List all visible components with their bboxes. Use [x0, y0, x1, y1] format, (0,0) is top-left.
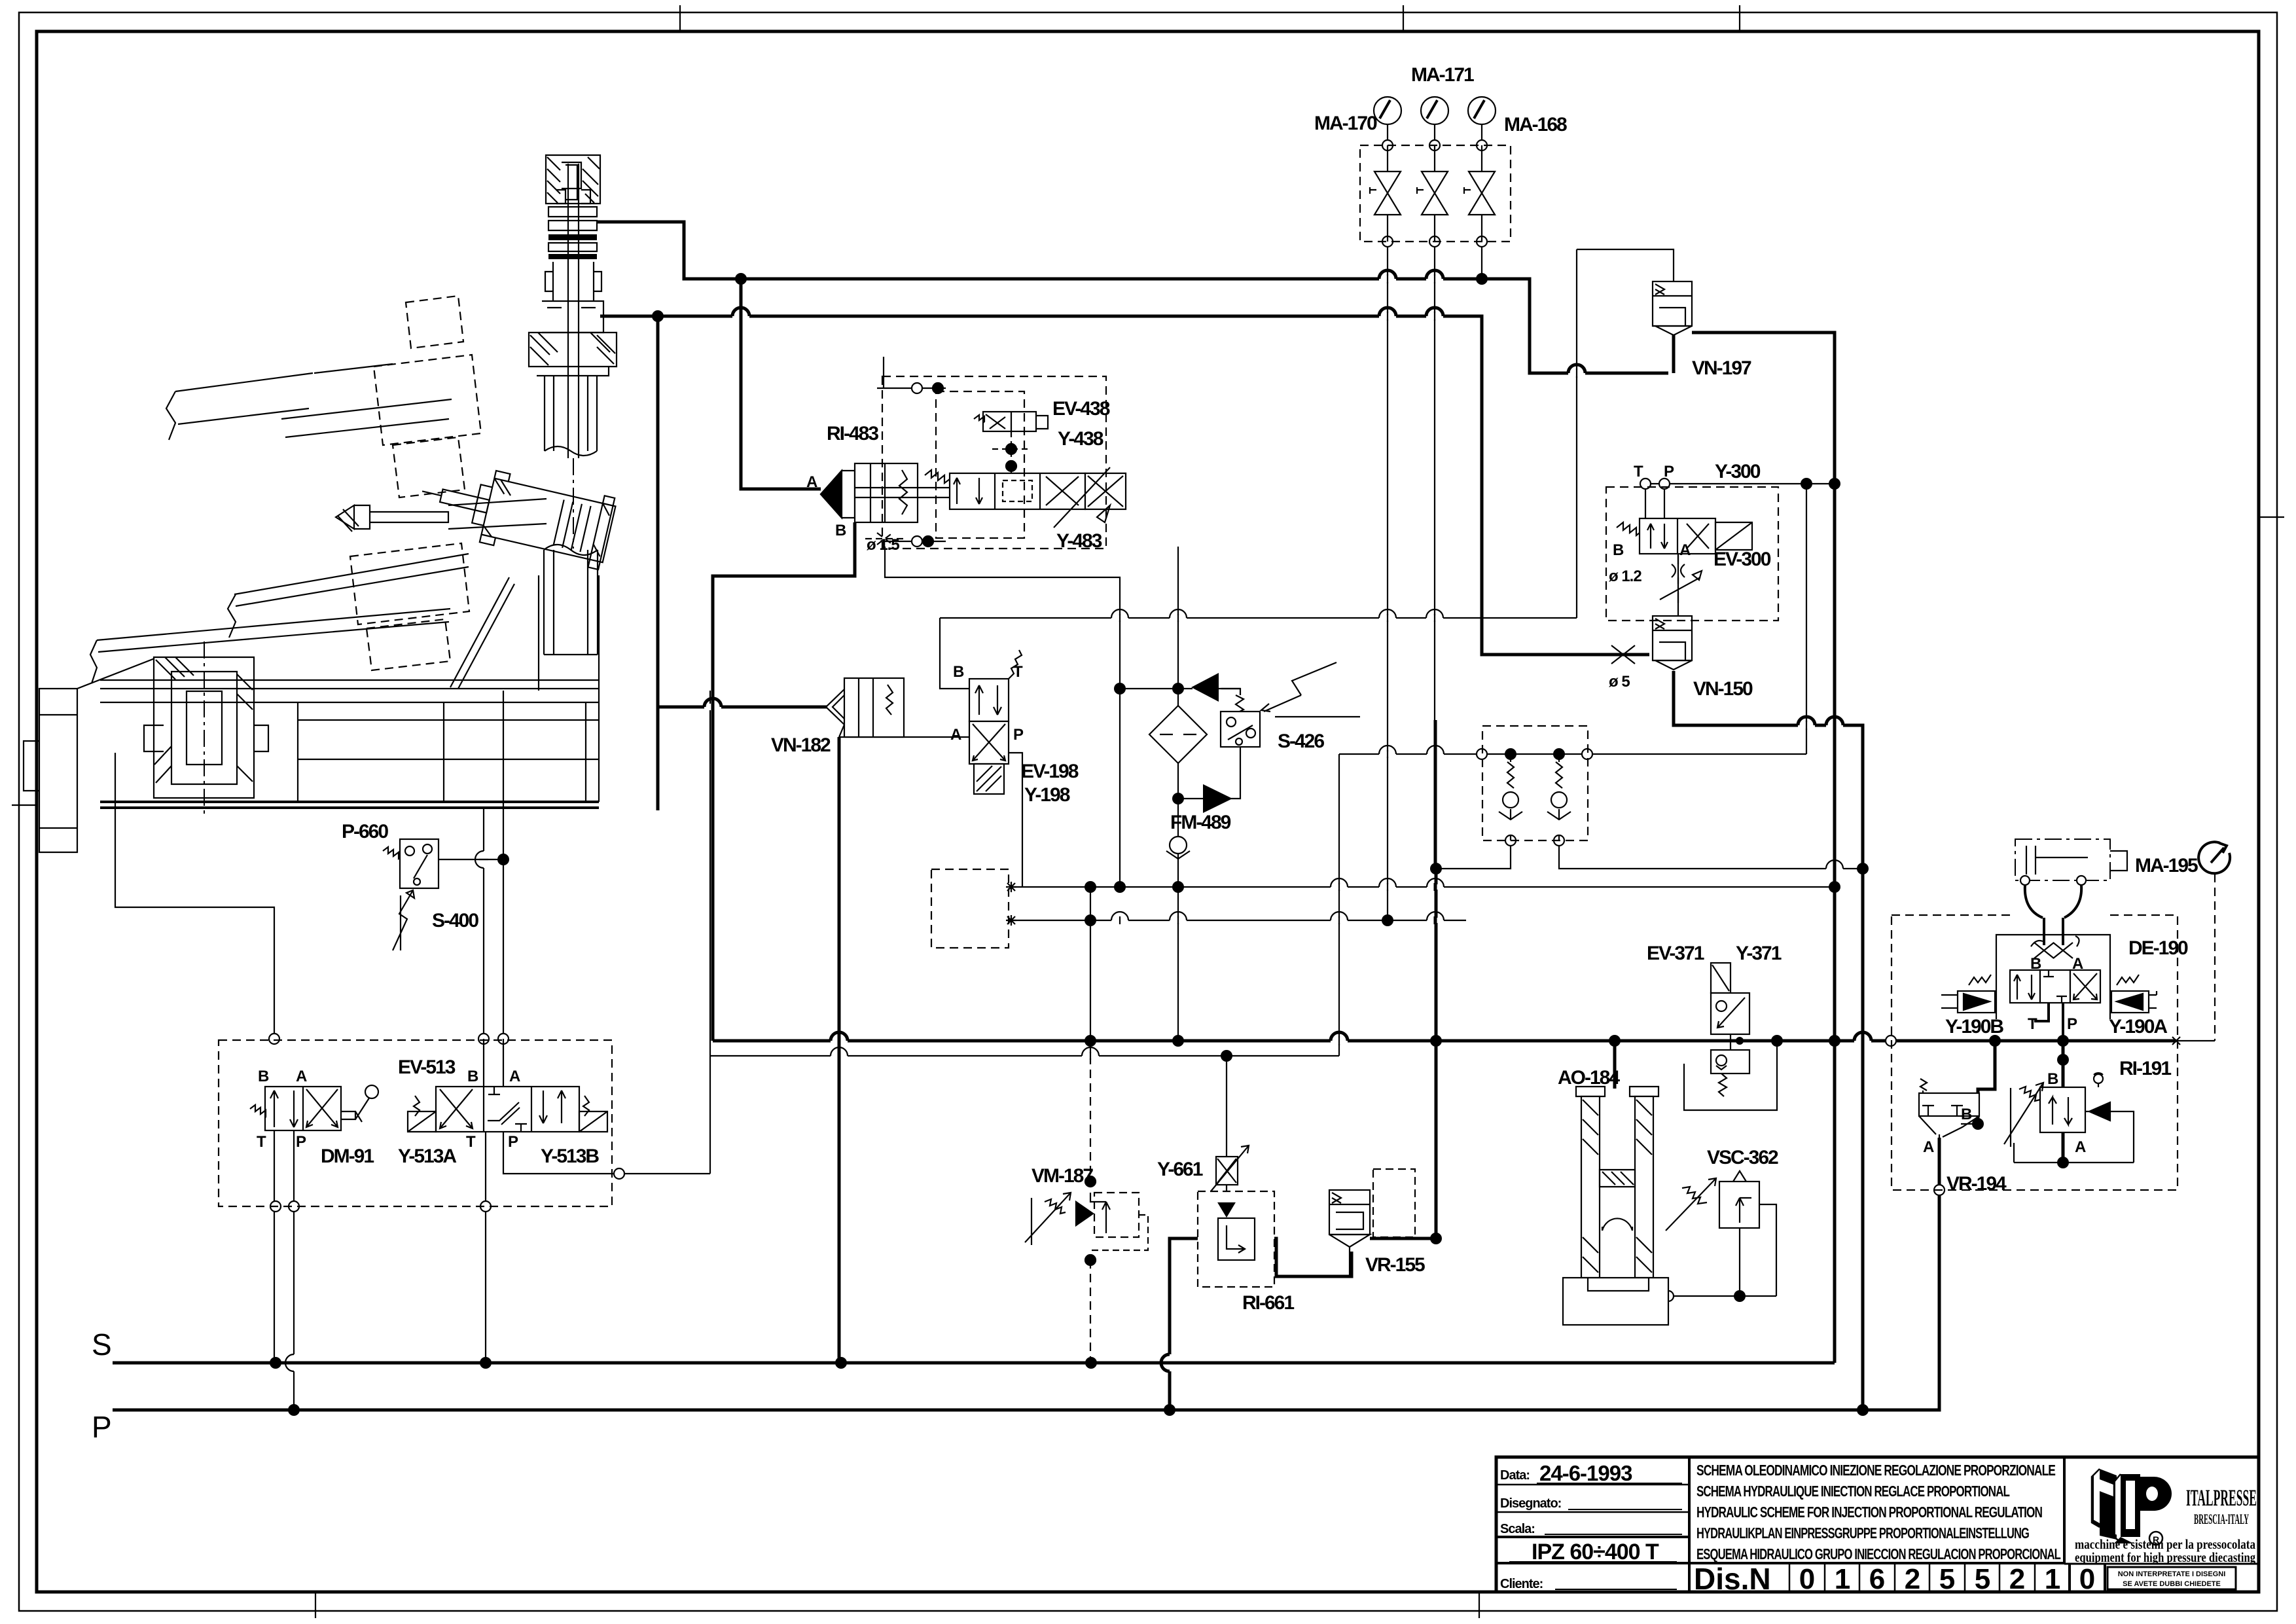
mid dashed mold parts: [350, 543, 469, 670]
node rail1355: [1085, 881, 1096, 893]
wire EV-513 B column upper: [483, 808, 484, 1039]
relief valve VM-187: [1025, 1176, 1148, 1265]
node P-660: [497, 854, 509, 865]
svg-text:Y-513A: Y-513A: [398, 1146, 456, 1167]
port Y300 T P: [1640, 478, 1651, 489]
svg-text:Y-190A: Y-190A: [2109, 1016, 2167, 1038]
svg-text:VR-155: VR-155: [1365, 1254, 1425, 1276]
svg-text:Cliente:: Cliente:: [1500, 1577, 1543, 1591]
accumulator AO-184: [1563, 1081, 1668, 1325]
valve EV-198: [969, 650, 1022, 794]
upper tie bars (broken diagonals): [166, 364, 452, 440]
svg-text:A: A: [1923, 1138, 1934, 1156]
gauge MA-168: [1468, 97, 1496, 124]
svg-text:P: P: [92, 1410, 112, 1444]
svg-text:T: T: [466, 1133, 476, 1151]
tilted ladle cylinder: [414, 456, 617, 570]
wire DM-91 B column upper: [115, 753, 274, 1039]
wire L1 cylinder head line: [598, 222, 1674, 373]
svg-text:A: A: [950, 726, 961, 744]
node A-line: [1085, 1035, 1096, 1047]
wire AO-VSC bottom rail: [1668, 1204, 1776, 1296]
svg-text:RI-483: RI-483: [827, 423, 878, 444]
wire EV-198 A link: [839, 736, 969, 738]
svg-text:B: B: [835, 522, 846, 539]
clamp unit center: [144, 657, 268, 798]
node DE190 interior: [2057, 1054, 2069, 1066]
pressure switch P-660: [383, 839, 503, 888]
wire DE-190 P feed: [2062, 1041, 2065, 1163]
upper machine diagonals pair: [90, 554, 469, 683]
svg-text:2: 2: [2009, 1563, 2025, 1595]
lightning S-400: [393, 890, 414, 950]
wire RI-661 inlet from P: [1170, 1238, 1218, 1410]
svg-text:ø 5: ø 5: [1609, 673, 1630, 691]
svg-text:1: 1: [2045, 1563, 2060, 1595]
wire filter column: [1177, 547, 1179, 1041]
wire EV-371 bypass loop: [1684, 1041, 1777, 1110]
svg-text:ESQUEMA HIDRAULICO GRUPO INIEC: ESQUEMA HIDRAULICO GRUPO INIECCION REGUL…: [1696, 1545, 2061, 1562]
svg-text:A: A: [1679, 541, 1691, 559]
proportional valve Y-190: [1941, 918, 2157, 1041]
wire vertical drop rail: [1338, 754, 1340, 1056]
node P line: [288, 1404, 300, 1416]
cartridge valve EV-371: [1711, 963, 1749, 1096]
wire DM-91 columns lower: [274, 1130, 294, 1410]
pilot valve EV-438: [974, 412, 1048, 431]
wire MA-170 column: [1387, 124, 1388, 920]
frame tick top 3: [1739, 5, 1740, 31]
wire P-660 sense column: [503, 691, 504, 1039]
wire AO-184 to A-line: [1613, 1041, 1617, 1089]
svg-text:EV-198: EV-198: [1021, 761, 1079, 782]
wire twin check right riser: [1806, 484, 1807, 754]
svg-text:B: B: [1613, 541, 1624, 559]
node Y-661 pilot: [1221, 1050, 1232, 1062]
valve group Y-300 / EV-300 dashed box: [1606, 487, 1778, 621]
node filter top: [1114, 683, 1126, 695]
svg-text:equipment for high pressure di: equipment for high pressure diecasting: [2075, 1549, 2255, 1565]
frame tick bottom 1: [315, 1592, 316, 1618]
logo ITALPRESSE: [2075, 1469, 2257, 1589]
port DE190 left: [1886, 1036, 1896, 1046]
svg-text:EV-513: EV-513: [398, 1056, 456, 1078]
wire S supply line: [113, 1362, 1835, 1365]
valve group EV-513 dashed box: [219, 1040, 612, 1206]
gauge MA-170: [1374, 97, 1401, 124]
svg-text:6: 6: [1869, 1563, 1885, 1595]
frame tick bottom 2: [1479, 1592, 1480, 1618]
node Y300 feed: [1829, 478, 1840, 490]
wire RI-661 to VR-155: [1255, 1238, 1352, 1276]
valve block DE-190 dashed box: [1892, 915, 2178, 1190]
svg-text:Disegnato:: Disegnato:: [1500, 1496, 1561, 1511]
wire EV-198 T rail to VN-197 loop: [940, 249, 1674, 618]
wire filter bottom rail: [1178, 747, 1240, 799]
wire EV-198 P stub: [1009, 753, 1022, 887]
check valve below filter: [1166, 837, 1190, 859]
svg-text:P: P: [2067, 1015, 2077, 1033]
x-ports on dashed square: [1006, 882, 2180, 1045]
svg-text:A: A: [2072, 955, 2083, 973]
frame tick top 1: [679, 5, 681, 31]
svg-text:S: S: [92, 1327, 112, 1362]
wire A-line main rail: [713, 1039, 2176, 1043]
frame tick left: [12, 804, 37, 806]
wire rail pilot lower: [1011, 920, 1466, 921]
svg-text:A: A: [806, 473, 817, 491]
diagonal brace: [450, 577, 514, 689]
wire lower pilot rail: [710, 1055, 1339, 1056]
node rail1406: [1085, 914, 1096, 926]
RI-483 drain line bottom: [885, 536, 946, 547]
valve Y-300 body: [1617, 518, 1752, 554]
svg-text:HYDRAULIC SCHEME FOR INJECTION: HYDRAULIC SCHEME FOR INJECTION PROPORTIO…: [1696, 1504, 2042, 1521]
svg-text:ITALPRESSE: ITALPRESSE: [2186, 1485, 2257, 1511]
svg-text:B: B: [2030, 955, 2041, 973]
svg-text:SCHEMA OLEODINAMICO INIEZIONE: SCHEMA OLEODINAMICO INIEZIONE REGOLAZION…: [1696, 1462, 2056, 1479]
throttle o1.2 with arrow EV-300: [1660, 554, 1702, 603]
check valve filter lower: [1203, 784, 1232, 813]
clamp centerline: [204, 641, 205, 815]
svg-text:Y-198: Y-198: [1024, 784, 1070, 806]
svg-text:B: B: [258, 1068, 269, 1085]
wire EV-198 B loop: [940, 618, 969, 689]
pressure switch S-426: [1221, 662, 1360, 747]
gauge isolation valve box: [1360, 145, 1511, 242]
svg-text:RI-191: RI-191: [2119, 1058, 2171, 1079]
hand valve DM-91: [250, 1085, 378, 1130]
svg-text:B: B: [1961, 1106, 1972, 1123]
svg-text:B: B: [467, 1068, 478, 1085]
reducing valve RI-661: [1198, 1191, 1274, 1287]
svg-text:VN-182: VN-182: [771, 734, 831, 756]
svg-text:T: T: [257, 1133, 266, 1151]
svg-text:ø 1.2: ø 1.2: [1609, 568, 1641, 585]
pilot links EV-438: [992, 431, 1030, 473]
svg-text:Scala:: Scala:: [1500, 1522, 1535, 1536]
svg-text:1: 1: [1835, 1563, 1850, 1595]
port twin check box: [1477, 749, 1487, 759]
shutoff valve 3: [1464, 145, 1495, 242]
twin check valve box: [1482, 726, 1588, 840]
RI-483 feed line top: [877, 357, 946, 393]
svg-text:Y-513B: Y-513B: [541, 1146, 599, 1167]
wire MA-171 column: [1434, 124, 1435, 720]
check valve right: [1547, 754, 1571, 840]
wire VN-197 outlet: [1692, 333, 1835, 1363]
svg-text:Y-483: Y-483: [1056, 530, 1102, 552]
lower tube of injection unit: [544, 545, 598, 655]
wire VR-194 outlet: [1938, 1138, 1941, 1190]
node VR155 right: [1430, 1233, 1442, 1244]
check valve filter bypass upper: [1191, 673, 1219, 702]
solenoid valve EV-513: [408, 1039, 607, 1132]
gauge MA-171: [1421, 97, 1448, 124]
machine bottom edge: [100, 802, 599, 808]
injection pin / nozzle: [336, 499, 547, 529]
svg-text:0: 0: [1799, 1563, 1815, 1595]
pilot cylinder symbol DE-190: [2015, 839, 2127, 918]
svg-text:P: P: [296, 1133, 306, 1151]
svg-text:Y-438: Y-438: [1058, 428, 1103, 450]
title block: [1496, 1457, 2259, 1596]
svg-text:AO-184: AO-184: [1558, 1067, 1620, 1089]
node filter bottom: [1172, 793, 1184, 804]
svg-text:T: T: [1013, 663, 1023, 681]
port AO base: [1663, 1291, 1674, 1301]
svg-text:Y-300: Y-300: [1715, 461, 1761, 482]
gauge MA-195: [2198, 842, 2230, 873]
wire EV-300 to VN-150: [1677, 554, 1679, 616]
svg-text:P: P: [1013, 726, 1024, 744]
wire upper check to S-426: [1221, 689, 1240, 695]
svg-text:P-660: P-660: [342, 821, 388, 842]
wire VR-155 to A-line: [1370, 869, 1436, 1238]
relief valve VSC-362: [1666, 1171, 1759, 1231]
wire EV-513 P loop: [503, 691, 710, 1174]
svg-text:B: B: [2047, 1070, 2058, 1088]
shutoff valve 2: [1417, 145, 1448, 242]
wire P pilot line: [113, 1190, 1939, 1410]
valve Y-483 proportional: [918, 467, 1126, 528]
wire VM-187 pilot line: [1090, 887, 1091, 1056]
node L2 drop: [652, 310, 664, 322]
svg-text:RI-661: RI-661: [1242, 1292, 1294, 1314]
svg-text:SE AVETE DUBBI CHIEDETE: SE AVETE DUBBI CHIEDETE: [2123, 1580, 2221, 1588]
wire RI-483 A port: [741, 279, 821, 489]
svg-text:MA-171: MA-171: [1411, 64, 1474, 86]
svg-text:DE-190: DE-190: [2128, 937, 2188, 959]
svg-text:S-400: S-400: [432, 910, 478, 931]
wire Y-661 pilot feed: [1226, 1056, 1227, 1157]
svg-text:2: 2: [1905, 1563, 1920, 1595]
svg-text:VSC-362: VSC-362: [1707, 1147, 1778, 1168]
throttle o1.5: [865, 533, 905, 545]
port EV513 group: [614, 1168, 624, 1179]
svg-text:0: 0: [2079, 1563, 2095, 1595]
wire RI-483 B port: [713, 522, 855, 1041]
injection cylinder assembly: [529, 155, 617, 549]
svg-text:A: A: [509, 1068, 520, 1085]
cartridge RI-483: [821, 463, 918, 522]
dashed boxes RI-483 group: [882, 376, 1106, 549]
svg-text:VN-197: VN-197: [1692, 357, 1751, 379]
wire Y-190B pilot to VR-194: [1978, 1041, 1995, 1124]
svg-text:NON INTERPRETATE I DISEGNI: NON INTERPRETATE I DISEGNI: [2118, 1570, 2226, 1578]
port VR-194 bottom: [1934, 1185, 1945, 1195]
right open box: [298, 702, 599, 802]
wire VN-182 drain to S: [838, 737, 841, 1363]
svg-text:VR-194: VR-194: [1946, 1173, 2007, 1195]
port gauges isolation box: [1382, 140, 1393, 151]
svg-text:T: T: [2028, 1015, 2037, 1033]
filter FM-489: [1149, 706, 1207, 763]
pin hatch: [338, 509, 359, 532]
svg-text:T: T: [1634, 463, 1643, 480]
wire Y-300 feed rail: [1645, 484, 1835, 524]
svg-text:Y-190B: Y-190B: [1945, 1016, 2003, 1038]
node L1-MA168: [1476, 273, 1488, 285]
upper mold blocks dashed: [374, 296, 481, 497]
svg-text:BRESCIA-ITALY: BRESCIA-ITALY: [2194, 1511, 2249, 1527]
wire EV-513 columns lower: [485, 1132, 486, 1363]
svg-text:P: P: [508, 1133, 518, 1151]
machine sketch group: [24, 296, 617, 852]
svg-text:VM-187: VM-187: [1031, 1165, 1093, 1187]
svg-text:FM-489: FM-489: [1170, 812, 1231, 833]
svg-text:5: 5: [1939, 1563, 1955, 1595]
valve VN-150: [1653, 616, 1692, 670]
wire twin check outlets: [1436, 840, 1863, 869]
svg-text:Data:: Data:: [1500, 1468, 1530, 1483]
left tall column: [24, 659, 154, 852]
wire jumps (crossovers): [285, 270, 1871, 1371]
svg-text:VN-150: VN-150: [1693, 678, 1753, 700]
svg-text:EV-438: EV-438: [1052, 398, 1110, 420]
valve VN-197: [1653, 281, 1692, 335]
svg-text:Dis.N: Dis.N: [1694, 1562, 1771, 1596]
wire rail mid pressure: [1011, 886, 1835, 888]
svg-text:ø 1.5: ø 1.5: [867, 536, 899, 554]
shutoff valve 1: [1370, 145, 1401, 242]
svg-text:P: P: [1664, 463, 1674, 480]
wire MA-195 link: [2176, 1040, 2215, 1041]
frame tick right: [2259, 516, 2284, 518]
node L1-RI483A: [735, 273, 747, 285]
machine beams horizontal: [100, 575, 599, 802]
wire twin check top rail: [1339, 753, 1806, 755]
svg-text:MA-195: MA-195: [2135, 855, 2198, 876]
node check outlets: [1430, 863, 1442, 875]
throttle o5: [1611, 645, 1635, 664]
svg-text:24-6-1993: 24-6-1993: [1539, 1461, 1632, 1485]
check valve left: [1499, 754, 1522, 840]
check valve VR-155: [1329, 1169, 1415, 1276]
svg-text:EV-300: EV-300: [1713, 549, 1771, 570]
dashed future-valve square: [931, 869, 1009, 948]
port circles: [269, 140, 1945, 1301]
node S line: [270, 1357, 281, 1369]
svg-text:S-426: S-426: [1278, 731, 1324, 752]
svg-text:IPZ 60÷400 T: IPZ 60÷400 T: [1532, 1540, 1659, 1564]
svg-text:DM-91: DM-91: [321, 1146, 374, 1167]
wire L2 cylinder rod line to VN-150: [600, 316, 1863, 1410]
wire RI-483 pilot drain: [885, 547, 1120, 887]
svg-text:A: A: [2075, 1138, 2086, 1156]
svg-text:5: 5: [1975, 1563, 1990, 1595]
svg-text:HYDRAULIKPLAN EINPRESSGRUPPE P: HYDRAULIKPLAN EINPRESSGRUPPE PROPORTIONA…: [1696, 1525, 2029, 1542]
wire filter top rail: [1120, 688, 1193, 689]
svg-text:MA-168: MA-168: [1504, 114, 1567, 135]
svg-text:A: A: [296, 1068, 307, 1085]
frame tick top 2: [1403, 5, 1404, 31]
node twin check tops: [1505, 748, 1516, 760]
svg-text:B: B: [953, 663, 964, 681]
svg-text:Y-661: Y-661: [1157, 1159, 1203, 1180]
node VSC drop: [1734, 1290, 1746, 1302]
svg-text:EV-371: EV-371: [1647, 943, 1704, 964]
reducing valve RI-191: [2004, 1073, 2134, 1163]
svg-text:Y-371: Y-371: [1736, 943, 1782, 964]
proportional throttle Y-661: [1204, 1146, 1249, 1218]
svg-text:MA-170: MA-170: [1314, 113, 1377, 134]
wire VN-182 feed: [658, 316, 827, 810]
wire MA-168 column: [1481, 124, 1482, 279]
pilot check VR-194: [1919, 1079, 1979, 1138]
svg-text:SCHEMA HYDRAULIQUE INIECTION R: SCHEMA HYDRAULIQUE INIECTION REGLACE PRO…: [1696, 1483, 2010, 1500]
valve VN-182: [826, 678, 904, 737]
